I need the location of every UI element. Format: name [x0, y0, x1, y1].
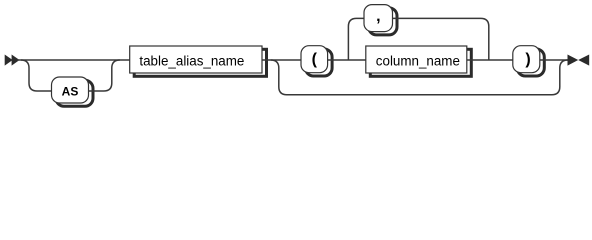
wire between ( and column_name: [328, 59, 366, 61]
svg-text:(: (: [312, 51, 318, 68]
terminal box ): [513, 46, 545, 76]
svg-text:): ): [525, 51, 530, 68]
end arrow bowtie: [568, 55, 590, 66]
wire after table box: [262, 59, 301, 61]
terminal box (: [301, 46, 332, 76]
wire between column_name and ): [467, 59, 513, 61]
wire loop right down: [393, 18, 489, 60]
svg-text:,: ,: [376, 8, 380, 25]
wire AS branch down: [21, 60, 52, 91]
wire bypass bottom: [271, 60, 568, 95]
wire main line left: [17, 59, 130, 61]
wire to end: [540, 59, 568, 61]
keyword box AS: [52, 77, 94, 106]
node table_alias_name: [130, 46, 267, 76]
wire AS branch up: [89, 60, 120, 91]
terminal box comma: [364, 5, 397, 35]
node column_name: [366, 46, 472, 76]
svg-text:table_alias_name: table_alias_name: [139, 53, 244, 68]
start arrow: [5, 55, 20, 66]
svg-text:AS: AS: [62, 84, 79, 98]
wire loop left up: [348, 18, 364, 60]
svg-text:column_name: column_name: [376, 53, 460, 68]
